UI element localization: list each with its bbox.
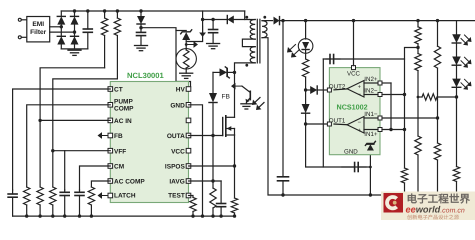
watermark title <box>407 193 471 206</box>
capacitor C2 <box>137 28 146 45</box>
bridge diode D1 <box>57 11 65 36</box>
node VFF <box>51 149 54 152</box>
diode D7 output <box>274 17 475 25</box>
arrow D13 light 1 <box>461 61 468 68</box>
wire IN1+ net <box>382 129 405 131</box>
arrow D12 light 1 <box>461 39 468 46</box>
node OUT2 junction <box>304 88 307 91</box>
pin IAVG <box>169 179 190 186</box>
wire bridge bottom <box>61 48 88 50</box>
svg-text:NCS1002: NCS1002 <box>337 103 368 112</box>
wire VFF sense down <box>52 151 54 187</box>
arrow FB signal <box>231 83 250 92</box>
pin ISPOS <box>165 164 191 171</box>
wire secondary bottom <box>262 38 383 195</box>
node rail 7 <box>201 214 204 217</box>
pin TEST <box>168 193 191 200</box>
wire v1 <box>390 83 392 130</box>
wire GND to rail <box>189 105 203 216</box>
svg-text:IN1−: IN1− <box>364 111 378 118</box>
wire OUT2 chain <box>305 90 307 104</box>
node AC IN <box>38 119 41 122</box>
svg-text:IN2+: IN2+ <box>364 76 378 83</box>
node IAVG R tap <box>211 179 214 182</box>
wire aux bottom to drain node <box>235 63 256 73</box>
transformer T1 secondary winding <box>262 21 267 38</box>
wire Q1 source to sense <box>234 135 236 166</box>
transformer T1 aux winding <box>250 47 255 63</box>
wire snubber <box>203 19 228 21</box>
node rail R12 <box>416 19 419 22</box>
wire drain to Q1 <box>234 72 236 117</box>
arrow Z1 tap <box>186 41 198 48</box>
zener diode Z3 reference <box>365 141 375 150</box>
resistor R10 <box>302 59 308 90</box>
svg-text:VCC: VCC <box>347 70 361 77</box>
arrow D14 light 1 <box>461 83 468 90</box>
wire EMI to bridge AC1 <box>50 26 62 28</box>
pin OUTA <box>167 133 191 140</box>
resistor R13 <box>415 44 421 136</box>
node rail 9 <box>219 214 222 217</box>
text FB label <box>222 94 231 101</box>
zener diode Z2 FB <box>213 67 235 78</box>
LED D12 <box>452 34 461 56</box>
pin VCC U2 <box>352 66 356 70</box>
wire IN1+ stub <box>364 129 378 131</box>
svg-text:EMI: EMI <box>32 21 44 28</box>
wire Z2 to lower diode <box>212 72 214 93</box>
text VCC <box>347 70 361 77</box>
zener diode Z1 <box>181 30 192 45</box>
wire OUT1 <box>306 123 330 125</box>
arrow light 2 <box>256 103 264 111</box>
node IN1- v4 <box>436 116 439 119</box>
wire VFF cap <box>64 151 66 190</box>
svg-text:GND: GND <box>344 149 358 156</box>
node rail 10 <box>233 214 236 217</box>
EMI filter block <box>27 17 50 42</box>
pin IN2+ <box>364 76 382 85</box>
resistor R3 sense <box>231 166 237 216</box>
node v3 rail <box>416 193 419 196</box>
node rail 8 <box>211 214 214 217</box>
node rail 2 <box>51 214 54 217</box>
capacitor C4 <box>8 190 17 216</box>
resistor R5 <box>37 187 43 216</box>
node rail D5 <box>139 9 142 12</box>
wire IN2- net <box>382 94 405 96</box>
svg-text:ISPOS: ISPOS <box>165 164 186 171</box>
watermark slogan <box>407 214 460 221</box>
pin CM <box>108 164 124 171</box>
capacitor C9 comp <box>342 163 366 172</box>
wire VCC U2 <box>353 21 355 66</box>
resistor R12 <box>415 21 421 44</box>
wire comp chain <box>306 124 371 167</box>
transistor Q1 MOSFET <box>223 116 235 136</box>
resistor R14 horizontal <box>418 94 457 100</box>
node C8 gnd <box>281 193 284 196</box>
arrow LATCH stub <box>98 192 109 199</box>
capacitor C8 output <box>278 21 289 195</box>
svg-text:Filter: Filter <box>30 29 47 36</box>
bridge diode D3 <box>57 36 65 49</box>
svg-text:IN1+: IN1+ <box>364 131 378 138</box>
wire OUT2 stub <box>334 88 347 91</box>
node rail R2 <box>116 9 119 12</box>
node rail 4 <box>78 214 81 217</box>
text NCS1002 <box>337 103 368 112</box>
capacitor C10 <box>326 55 340 64</box>
optocoupler phototransistor Q2 <box>246 91 251 104</box>
wire VCC supply line <box>323 48 418 60</box>
wire EMI to bridge AC2 <box>50 31 75 33</box>
wire IN1- net <box>382 117 438 119</box>
wire IAVG <box>189 180 222 182</box>
pin PUMP COMP <box>108 98 134 112</box>
arrow startup current <box>199 26 206 37</box>
watermark url <box>406 205 465 215</box>
ground CR1 <box>180 73 193 78</box>
node zener rail <box>369 193 372 196</box>
wire OUT1 stub <box>334 123 347 126</box>
arrow D13 light 2 <box>465 57 472 64</box>
node output cap <box>281 19 284 22</box>
node snubber tap <box>201 18 204 21</box>
resistor R1 startup <box>101 11 107 68</box>
ground bridge <box>68 50 81 55</box>
text OUT2 <box>329 83 346 90</box>
wire R1 to AC-sense <box>40 68 105 121</box>
pin IN1+ <box>364 128 382 139</box>
svg-text:TEST: TEST <box>168 193 185 200</box>
pin NC <box>186 118 191 123</box>
wire v2 <box>404 59 406 168</box>
wire rail to primary <box>244 11 246 20</box>
node T1 aux dot <box>245 64 248 67</box>
op-amp U2A <box>347 117 364 134</box>
resistor R7 <box>88 187 94 216</box>
text NCL30001 <box>127 71 164 80</box>
text OUT1 <box>329 117 346 124</box>
node T1 secondary dot <box>263 16 266 19</box>
wire top rail <box>61 10 244 12</box>
pin FB <box>108 133 123 140</box>
input terminal J1-1 <box>18 18 27 21</box>
wire CT <box>13 89 111 190</box>
pin VFF <box>108 148 126 155</box>
node rail C1 <box>86 9 89 12</box>
node bridge AC2 <box>73 30 76 33</box>
diode D11 <box>302 104 310 124</box>
resistor R6 <box>50 187 56 216</box>
ground C2 <box>135 46 148 51</box>
ground C3 <box>207 44 220 49</box>
ground opto emitter <box>241 104 252 109</box>
svg-text:NCL30001: NCL30001 <box>127 71 164 80</box>
capacitor C1 bulk <box>83 11 92 49</box>
pin LATCH <box>108 193 136 200</box>
LED D14 <box>452 79 461 97</box>
svg-text:HV: HV <box>176 87 186 94</box>
pin OUT1 <box>327 122 331 126</box>
wire IN1- stub <box>364 117 378 119</box>
node D8 OUTA junction <box>211 134 214 137</box>
wire ISPOS <box>189 165 235 167</box>
bridge diode D4 <box>71 36 79 49</box>
svg-text:AC COMP: AC COMP <box>114 179 145 186</box>
node Z1 out <box>185 43 188 46</box>
node comp T <box>369 166 372 169</box>
IC U2 NCS1002 box <box>329 68 380 155</box>
wire primary tap <box>242 39 255 47</box>
svg-text:FB: FB <box>114 133 123 140</box>
arrow LED light 2 <box>287 45 296 53</box>
resistor R15 <box>434 21 440 143</box>
node v1 IN1+ <box>389 128 392 131</box>
svg-text:OUTA: OUTA <box>167 133 185 140</box>
node rail D2 <box>73 9 76 12</box>
wire CM <box>80 166 111 190</box>
node D5 out <box>139 26 142 29</box>
arrow FB stub <box>98 132 109 139</box>
wire D5 to HV <box>141 28 191 87</box>
pin GND <box>170 102 190 109</box>
wire comp vert <box>322 59 324 167</box>
node bridge AC1 <box>60 25 63 28</box>
wire LED string top <box>456 21 458 35</box>
wire IN2+ stub <box>364 82 378 84</box>
pin OUT2 <box>327 88 331 92</box>
node LED sense <box>455 95 458 98</box>
svg-text:LATCH: LATCH <box>114 193 136 200</box>
transformer T1 core <box>257 19 260 63</box>
LED D13 <box>452 57 461 79</box>
resistor R18 <box>415 136 421 195</box>
svg-text:创新电子产品设计之源: 创新电子产品设计之源 <box>407 214 460 221</box>
svg-text:FB: FB <box>222 94 231 101</box>
svg-text:AC IN: AC IN <box>114 118 132 125</box>
node rail 0 <box>25 214 28 217</box>
diode D8 <box>209 93 217 188</box>
pin IN2- <box>364 88 382 97</box>
node snubber C3 <box>211 18 214 21</box>
resistor R11 <box>401 168 407 195</box>
resistor R17 <box>453 167 459 196</box>
wire OUTA gate <box>189 135 223 137</box>
arrow light 1 <box>252 98 260 106</box>
op-amp U2B <box>347 81 364 98</box>
node VCC rail <box>352 19 355 22</box>
wire IN2+ net <box>382 82 391 84</box>
svg-text:IAVG: IAVG <box>169 179 184 186</box>
watermark background <box>381 192 475 221</box>
node rail R15 <box>436 19 439 22</box>
wire primary ground rail <box>13 215 235 217</box>
pin VCC <box>171 148 191 155</box>
wire HV branch to zener <box>176 30 186 32</box>
resistor R8 IAVG <box>210 188 216 216</box>
wire AC sense down <box>39 120 41 187</box>
node rail 6 <box>191 214 194 217</box>
resistor R4 <box>24 187 30 216</box>
text GND U2 <box>344 149 358 156</box>
node R14 tap <box>417 96 420 99</box>
wire AC COMP <box>91 181 110 187</box>
node rail 3 <box>63 214 66 217</box>
transformer T1 primary winding <box>249 20 255 40</box>
wire PUMP COMP <box>27 105 111 187</box>
wire R2 to VFF-sense <box>53 79 118 151</box>
capacitor C5 <box>60 190 69 216</box>
node rail 5 <box>90 214 93 217</box>
capacitor C3 snubber <box>209 20 218 44</box>
pin CT <box>108 87 123 94</box>
wire rail to startup <box>186 11 202 42</box>
node T1 primary dot <box>245 16 248 19</box>
svg-text:VFF: VFF <box>114 148 126 155</box>
diode D5 <box>137 11 145 28</box>
wire zener leg <box>369 138 371 195</box>
node rail R1 <box>103 9 106 12</box>
node IN2- v2 <box>403 93 406 96</box>
pin AC IN <box>108 118 132 125</box>
node drain junction <box>233 71 236 74</box>
wire AC IN <box>40 119 110 121</box>
node v2 rail <box>403 193 406 196</box>
svg-text:VCC: VCC <box>171 148 185 155</box>
svg-text:CM: CM <box>114 164 124 171</box>
pin IN1- <box>364 111 382 120</box>
node R12 R13 <box>416 46 419 49</box>
arrow LED light 1 <box>291 50 300 58</box>
resistor R2 startup <box>114 11 120 79</box>
diode D6 clamp <box>227 16 249 24</box>
node OUT1 junction <box>304 122 307 125</box>
resistor R9 TEST <box>189 196 197 217</box>
arrow D12 light 2 <box>465 35 472 42</box>
pin AC COMP <box>108 179 145 186</box>
svg-text:COMP: COMP <box>114 105 134 112</box>
wire LED string down <box>456 97 458 167</box>
IC U1 NCL30001 box <box>110 82 188 203</box>
wire IN2- stub <box>364 94 378 96</box>
resistor R16 <box>434 143 440 191</box>
arrow D14 light 2 <box>465 79 472 86</box>
current regulator CR1 <box>176 45 196 74</box>
diode D10 <box>306 86 330 94</box>
wire secondary top <box>262 20 273 22</box>
watermark logo <box>384 193 404 213</box>
input terminal J1-2 <box>18 36 27 39</box>
node rail 1 <box>38 214 41 217</box>
svg-text:GND: GND <box>170 102 185 109</box>
capacitor C6 <box>75 190 84 216</box>
node IN1+ v2 <box>403 128 406 131</box>
node LED branch <box>304 19 307 22</box>
optocoupler LED D9 <box>298 21 313 59</box>
node ISPOS junction <box>233 164 236 167</box>
svg-text:CT: CT <box>114 87 123 94</box>
svg-text:PUMP: PUMP <box>114 98 133 105</box>
capacitor C7 IAVG <box>217 181 226 216</box>
bridge diode D2 <box>71 11 79 36</box>
svg-text:IN2−: IN2− <box>364 88 378 95</box>
pin HV <box>176 87 191 94</box>
wire VFF <box>53 150 111 152</box>
